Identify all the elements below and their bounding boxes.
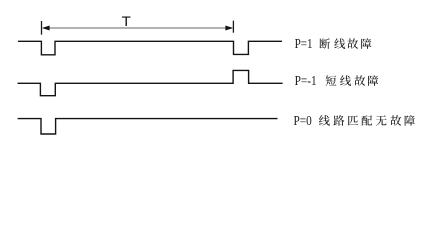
waveform P=1 (broken-line fault): two downward notches one period T apart (18, 41, 282, 55)
waveform P=0 (matched line, no fault): single downward notch, no reflection (18, 119, 278, 134)
right extension tick of T dimension (232, 21, 234, 33)
right arrowhead (225, 26, 233, 31)
left extension tick of T dimension (41, 21, 43, 35)
waveform P=-1 (short-line fault): downward notch then upward reflected pulse (18, 70, 283, 95)
dimension arrow shaft for period T (43, 27, 232, 29)
svg-text:P=1: P=1 (295, 37, 313, 52)
svg-text:P=-1: P=-1 (295, 74, 317, 89)
label text: 断线故障 (broken-line fault) (320, 38, 372, 49)
label text: 短线故障 (short-line fault) (326, 75, 379, 86)
svg-text:P=0: P=0 (294, 114, 312, 129)
svg-text:T: T (122, 13, 132, 29)
left arrowhead (42, 26, 50, 31)
label text: 线路匹配无故障 (line matched, no fault) (319, 115, 415, 126)
